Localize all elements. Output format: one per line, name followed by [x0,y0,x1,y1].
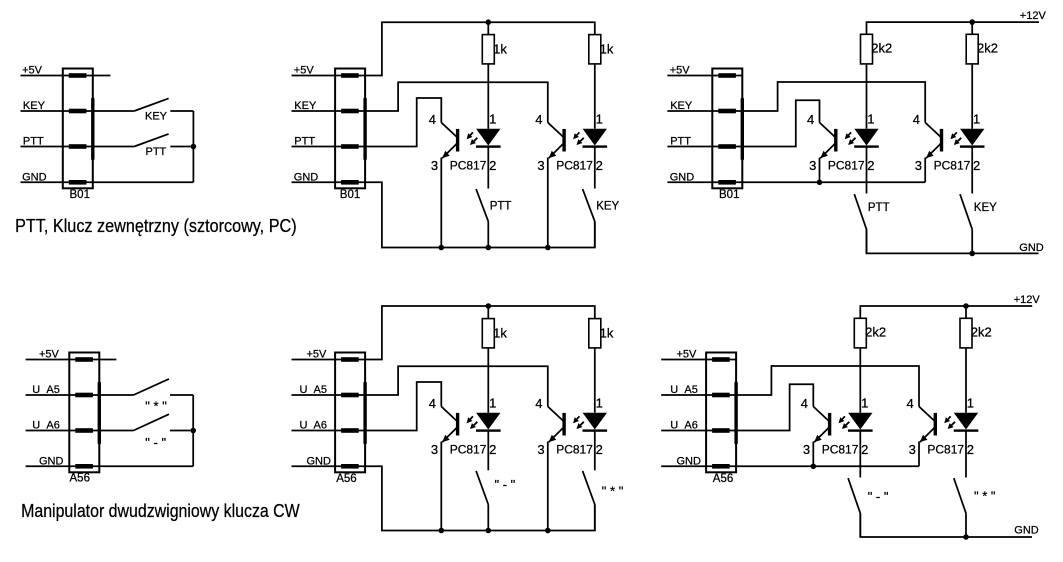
switch S6 blade [954,478,966,513]
wire GND to bottom rail and up to switch2 [365,182,595,247]
opto U4 LED cathode bar [960,145,985,147]
opto U4 light arrow a [952,132,957,138]
opto LED pin 2 cathode wire [971,148,973,194]
svg-text:2: 2 [489,442,496,457]
switch S-dah fixed contact [170,430,190,432]
svg-text:2k2: 2k2 [971,324,992,339]
opto U3 light arrow b [849,138,855,144]
opto U1 pin 4 collector lead [441,407,456,421]
svg-text:1k: 1k [600,326,614,341]
wire KEY to switch pole [93,110,134,112]
resistor R2 1k [589,319,601,348]
svg-text:4: 4 [807,112,814,127]
switch S5 bottom wire [859,513,861,537]
switch S6 bottom wire [965,513,967,537]
wire GND bus to opto emitters [742,181,925,183]
wire U_A6 feed to opto U1 pin 4 [365,382,441,431]
opto U2 pin 4 collector lead [548,123,563,137]
svg-text:Manipulator dwudzwigniowy kluc: Manipulator dwudzwigniowy klucza CW [21,500,300,521]
resistor R2 1k [589,35,601,64]
svg-text:1: 1 [489,112,496,127]
junction U3 pin3 / GND bus [817,180,823,186]
bottom rail external GND [860,513,1032,537]
svg-text:4: 4 [535,396,542,411]
opto U3 LED anode wire pin 1 [859,348,861,413]
junction supply rail / R1 [486,19,492,25]
junction switch2 / bottom rail [963,534,969,540]
svg-text:" * ": " * " [974,489,996,504]
switch S6 blade [960,194,972,229]
svg-text:GND: GND [1019,242,1044,254]
connector B01 (b1) body [63,69,93,189]
B01 pin contact KEY [718,109,736,114]
wire KEY feed to opto U4 pin 4 [742,82,925,123]
resistor R4 2k2 [960,318,972,348]
switch S-KEY blade [134,98,168,111]
switch S1 bottom wire [487,505,489,531]
opto U4 LED triangle [954,413,978,430]
switch S5 blade [848,478,860,513]
svg-text:2: 2 [489,158,496,173]
svg-text:3: 3 [431,158,438,173]
svg-text:PC817: PC817 [828,158,865,172]
A56 pin contact U_A5 [75,393,93,398]
svg-text:A56: A56 [336,473,356,485]
svg-text:B01: B01 [719,189,739,201]
switch S2 bottom wire [594,505,596,531]
connector B01 (m) body [335,69,365,189]
svg-text:1: 1 [596,112,603,127]
A56 pin contact U_A6 [341,428,359,433]
svg-text:" * ": " * " [145,399,167,414]
opto U3 LED cathode bar [848,429,873,431]
wire U_A5 feed to opto U4 pin 4 [736,366,919,407]
wire GND to bottom rail and up to switch2 [365,466,595,530]
opto U2 pin 3 wire down [547,158,549,248]
svg-text:PTT: PTT [146,146,167,158]
wire KEY into connector [292,110,366,112]
opto U1 light arrow b [471,138,477,144]
svg-text:B01: B01 [340,189,360,201]
supply rail +12V [867,22,1040,34]
opto LED pin 2 cathode wire [487,432,489,471]
wire GND into connector [26,465,100,467]
junction node at PTT contact [191,144,197,150]
svg-text:KEY: KEY [974,202,997,214]
junction U3 pin3 / GND bus [811,464,817,470]
opto U4 LED triangle [960,129,984,146]
svg-text:PC817: PC817 [450,158,487,172]
opto U1 transistor base bar [456,129,459,152]
junction supply rail / R1 [486,303,492,309]
svg-text:PC817: PC817 [556,442,593,456]
A56 pin contact U_A6 [712,428,730,433]
svg-text:3: 3 [431,442,438,457]
wire GND into connector [292,465,366,467]
B01 pin contact +5V [718,73,736,78]
svg-text:4: 4 [801,396,808,411]
wire KEY into connector [667,110,742,112]
opto U3 light arrow b [843,422,849,428]
wire +5V into connector [661,359,736,361]
svg-text:B01: B01 [70,189,90,201]
B01 pin contact PTT [341,144,359,149]
svg-text:1: 1 [973,112,980,127]
junction switch2 / bottom rail [969,251,975,257]
junction U2 pin3 / rail [545,528,551,534]
opto U1 LED anode wire pin 1 [487,348,489,413]
svg-text:2k2: 2k2 [871,40,892,55]
opto U1 LED triangle [476,129,500,146]
svg-text:PTT: PTT [490,201,512,213]
svg-text:3: 3 [537,442,544,457]
svg-text:2: 2 [973,158,980,173]
opto U2 LED triangle [583,413,607,430]
wire U_A6 feed to opto U3 pin 4 [736,384,813,430]
opto U2 LED triangle [583,129,607,146]
wire +5V into connector [667,75,742,77]
opto U2 pin 3 emitter lead with arrow [549,144,564,158]
opto U1 pin 3 emitter lead with arrow [442,144,457,158]
junction U2 pin3 / rail [545,245,551,251]
opto U2 LED anode wire pin 1 [594,64,596,129]
svg-text:" - ": " - " [868,489,889,504]
switch S2 blade [583,189,595,221]
opto U2 light arrow a [574,132,579,138]
opto U1 LED anode wire pin 1 [487,64,489,129]
svg-text:A56: A56 [713,473,733,485]
opto U4 LED anode wire pin 1 [971,64,973,129]
wire PTT feed to opto U3 pin 4 [742,100,819,146]
svg-text:3: 3 [909,442,916,457]
resistor R3 2k2 [854,318,866,348]
svg-text:PTT: PTT [868,202,890,214]
resistor R1 1k [482,319,494,348]
resistor R4 2k2 [966,34,978,64]
B01 pin contact KEY [69,109,87,114]
opto U4 LED cathode bar [954,429,979,431]
connector B01 (r) body [712,69,742,189]
junction node at dah contact [190,428,196,434]
opto U1 LED cathode bar [476,145,501,147]
opto U3 LED anode wire pin 1 [866,64,868,129]
svg-text:PC817: PC817 [822,442,859,456]
opto U1 light arrow b [471,422,477,428]
svg-text:PTT, Klucz zewnętrzny (sztorco: PTT, Klucz zewnętrzny (sztorcowy, PC) [15,215,297,236]
svg-text:PC817: PC817 [934,158,971,172]
wire switch common to GND [192,111,194,182]
opto U1 LED triangle [476,413,500,430]
opto U2 LED cathode bar [583,145,608,147]
wire GND return [93,181,194,183]
wire U_A6 to switch pole [99,430,133,432]
B01 pin contact GND [69,180,87,185]
wire PTT into connector [292,146,366,148]
wire +5V to supply rail [365,22,595,75]
opto U3 light arrow a [846,132,851,138]
svg-text:KEY: KEY [145,110,168,122]
opto U1 pin 3 emitter lead with arrow [442,428,457,442]
B01 pin contact GND [341,180,359,185]
opto U4 pin 4 collector lead [925,123,940,137]
switch S-dah blade [134,414,170,430]
opto U3 transistor base bar [834,129,837,152]
junction +12V rail / R2 [969,19,975,25]
svg-text:1: 1 [596,396,603,411]
opto U4 pin 4 collector lead [919,407,934,421]
svg-text:1: 1 [967,396,974,411]
switch S-PTT blade [134,134,168,147]
svg-text:1k: 1k [600,42,614,57]
svg-text:3: 3 [803,442,810,457]
svg-text:A56: A56 [70,473,90,485]
junction U1 pin3 / rail [439,245,445,251]
opto U1 transistor base bar [456,413,459,436]
wire PTT into connector [667,146,742,148]
wire +5V stub [93,75,111,77]
wire GND into connector [292,181,366,183]
A56 pin contact +5V [75,357,93,362]
opto LED pin 2 cathode wire [866,148,868,194]
svg-text:3: 3 [809,158,816,173]
svg-text:+12V: +12V [1014,294,1041,306]
opto U1 pin 3 wire down [440,158,442,248]
opto LED pin 2 cathode wire [965,432,967,478]
wire GND bus to opto emitters [736,465,919,467]
svg-text:" * ": " * " [602,484,624,499]
wire U_A5 to switch pole [99,394,133,396]
svg-text:1: 1 [489,396,496,411]
wire KEY into connector [21,110,93,112]
wire U_A5 into connector [26,394,100,396]
switch S-PTT fixed contact [170,146,190,148]
opto U1 light arrow a [468,132,473,138]
opto U2 light arrow b [578,138,584,144]
svg-text:2: 2 [596,442,603,457]
B01 pin contact PTT [69,144,87,149]
B01 pin contact KEY [341,109,359,114]
svg-text:2k2: 2k2 [865,324,886,339]
opto U2 transistor base bar [562,129,565,152]
switch S5 blade [854,194,866,229]
opto U3 transistor base bar [828,413,831,436]
opto U3 pin 3 wire down [812,442,814,467]
opto U4 light arrow b [949,422,955,428]
junction switch1 / rail [486,528,492,534]
opto U2 light arrow a [574,416,579,422]
opto U3 pin 4 collector lead [813,407,828,421]
wire rail down to R1 [487,22,489,34]
svg-text:2: 2 [861,442,868,457]
switch S2 blade [583,471,595,505]
switch S1 blade [476,189,488,221]
opto U4 transistor base bar [934,413,937,436]
svg-text:PC817: PC817 [556,158,593,172]
opto U2 pin 4 collector lead [548,407,563,421]
wire GND return [99,465,193,467]
wire +5V into connector [292,75,366,77]
A56 polarization bar [734,383,737,443]
B01 polarization bar [91,99,94,159]
A56 pin contact U_A5 [341,393,359,398]
wire rail down to R1 [487,306,489,319]
wire +5V to supply rail [365,306,595,360]
svg-text:2: 2 [596,158,603,173]
wire PTT into connector [21,146,93,148]
opto U1 light arrow a [468,416,473,422]
wire PTT feed to opto U1 pin 4 [365,98,441,147]
svg-text:1: 1 [867,112,874,127]
opto U3 pin 3 emitter lead with arrow [820,144,835,158]
connector A56 (r) body [706,353,736,473]
svg-text:3: 3 [915,158,922,173]
junction switch1 / rail [486,245,492,251]
switch S-KEY fixed contact [170,110,193,112]
wire U_A6 into connector [292,430,366,432]
wire U_A5 into connector [292,394,366,396]
connector A56 (m) body [335,353,365,473]
opto U2 transistor base bar [562,413,565,436]
supply rail +12V [860,306,1032,318]
opto U3 LED triangle [854,129,878,146]
switch S-dit blade [134,379,170,395]
wire +5V into connector [292,359,366,361]
opto LED pin 2 cathode wire [594,148,596,189]
svg-text:PC817: PC817 [450,442,487,456]
svg-text:4: 4 [535,112,542,127]
wire +5V stub [99,359,116,361]
switch S5 bottom wire [866,229,868,253]
svg-text:4: 4 [913,112,920,127]
wire GND into connector [21,181,93,183]
svg-text:1k: 1k [493,326,507,341]
opto U3 LED cathode bar [854,145,879,147]
A56 pin contact GND [75,464,93,469]
wire rail down to R2 [971,22,973,34]
svg-text:1: 1 [861,396,868,411]
opto U3 pin 3 wire down [819,158,821,183]
A56 polarization bar [363,383,366,443]
wire GND into connector [661,465,736,467]
svg-text:1k: 1k [493,42,507,57]
svg-text:GND: GND [1014,525,1039,537]
B01 pin contact PTT [718,144,736,149]
wire U_A5 feed to opto U2 pin 4 [365,366,548,406]
switch S6 bottom wire [971,229,973,253]
svg-text:4: 4 [907,396,914,411]
switch S1 bottom wire [487,221,489,247]
A56 pin contact U_A5 [712,393,730,398]
wire rail down to R2 [965,306,967,318]
opto U4 pin 3 wire down [924,158,926,183]
opto U3 LED triangle [848,413,872,430]
wire +5V into connector [21,75,93,77]
svg-text:+12V: +12V [1020,10,1047,22]
svg-text:2k2: 2k2 [977,40,998,55]
opto U2 light arrow b [578,422,584,428]
opto LED pin 2 cathode wire [594,432,596,471]
resistor R1 1k [482,35,494,64]
opto U3 light arrow a [840,416,845,422]
A56 pin contact GND [341,464,359,469]
B01 polarization bar [363,99,366,159]
opto U4 transistor base bar [940,129,943,152]
A56 pin contact GND [712,464,730,469]
junction U1 pin3 / rail [439,528,445,534]
svg-text:2: 2 [867,158,874,173]
svg-text:" - ": " - " [495,477,516,492]
wire PTT to switch pole [93,146,134,148]
wire U_A6 into connector [26,430,100,432]
A56 pin contact U_A6 [75,428,93,433]
opto LED pin 2 cathode wire [859,432,861,478]
opto U4 light arrow b [955,138,961,144]
opto U1 pin 3 wire down [440,442,442,531]
switch S-dit fixed contact [170,394,193,396]
A56 polarization bar [98,383,101,443]
A56 pin contact +5V [341,357,359,362]
opto U4 pin 3 emitter lead with arrow [920,428,935,442]
opto U4 LED anode wire pin 1 [965,348,967,413]
wire +5V into connector [26,359,100,361]
switch S2 bottom wire [594,221,596,247]
bottom rail external GND [867,229,1039,253]
svg-text:" - ": " - " [145,435,166,450]
opto U2 pin 3 wire down [547,442,549,531]
wire switch common to GND [192,395,194,466]
switch S1 blade [476,471,488,505]
svg-text:4: 4 [429,396,436,411]
B01 pin contact GND [718,180,736,185]
opto U3 pin 4 collector lead [820,123,835,137]
B01 pin contact +5V [341,73,359,78]
opto U4 light arrow a [945,416,950,422]
opto U2 LED anode wire pin 1 [594,348,596,413]
svg-text:PC817: PC817 [927,442,964,456]
wire GND into connector [667,181,742,183]
opto U3 pin 3 emitter lead with arrow [814,428,829,442]
B01 polarization bar [741,99,744,159]
resistor R3 2k2 [861,34,873,64]
svg-text:2: 2 [967,442,974,457]
junction +12V rail / R2 [963,303,969,309]
opto U4 pin 3 emitter lead with arrow [926,144,941,158]
wire U_A6 into connector [661,430,736,432]
B01 pin contact +5V [69,73,87,78]
opto U2 pin 3 emitter lead with arrow [549,428,564,442]
opto U1 LED cathode bar [476,429,501,431]
opto U2 LED cathode bar [583,429,608,431]
svg-text:4: 4 [429,112,436,127]
svg-text:KEY: KEY [596,201,619,213]
opto U1 pin 4 collector lead [441,123,456,137]
wire KEY feed to opto U2 pin 4 [365,82,548,122]
opto LED pin 2 cathode wire [487,148,489,189]
A56 pin contact +5V [712,357,730,362]
connector A56 (b4) body [69,353,99,473]
svg-text:3: 3 [537,158,544,173]
wire U_A5 into connector [661,394,736,396]
opto U4 pin 3 wire down [918,442,920,467]
